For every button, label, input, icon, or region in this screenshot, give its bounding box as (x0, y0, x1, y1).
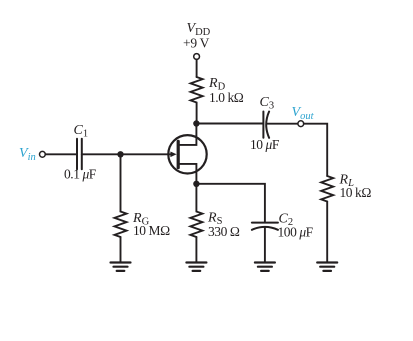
capacitor C3 (263, 112, 269, 138)
wire gate node down to RG (120, 154, 122, 211)
svg-text:C1: C1 (74, 123, 89, 140)
svg-text:Vout: Vout (292, 105, 315, 122)
svg-text:+9 V: +9 V (183, 35, 210, 50)
capacitor C2 (252, 223, 278, 230)
svg-text:Vin: Vin (19, 146, 36, 163)
ground RL (317, 263, 337, 271)
transistor Q1 drain lead (180, 124, 197, 145)
ground C2 (255, 263, 275, 271)
resistor RD (191, 77, 203, 103)
transistor Q1 body (168, 135, 206, 173)
svg-text:0.1 μF: 0.1 μF (64, 167, 97, 182)
svg-text:C3: C3 (260, 95, 275, 112)
svg-text:330 Ω: 330 Ω (208, 224, 240, 239)
wire RL to ground (326, 202, 328, 262)
transistor Q1 gate arrow (170, 152, 176, 158)
wire C3 to Vout terminal (267, 123, 298, 125)
terminal Vout (298, 121, 304, 127)
resistor RG (115, 212, 127, 238)
wire VDD to RD (196, 60, 198, 77)
wire Vin to C1 (45, 153, 76, 155)
node drain junction (193, 120, 199, 126)
wire RS to ground (195, 237, 197, 262)
svg-text:100 μF: 100 μF (278, 225, 314, 240)
wire source node to C2 (196, 184, 265, 222)
node source junction (193, 181, 199, 187)
terminal Vin (40, 151, 46, 157)
wire source node to RS (195, 184, 197, 212)
wire drain node to C3 (196, 123, 263, 125)
wire C2 to ground (264, 228, 266, 262)
svg-text:10 μF: 10 μF (250, 137, 280, 152)
svg-text:1.0 kΩ: 1.0 kΩ (209, 90, 244, 105)
wire C1 to gate node (82, 153, 121, 155)
wire Vout to RL (304, 124, 327, 176)
ground RS (186, 263, 206, 271)
ground RG (111, 263, 131, 271)
wire RD to drain node (196, 103, 198, 124)
node gate junction (117, 151, 123, 157)
terminal VDD (194, 54, 200, 60)
resistor RS (190, 212, 202, 238)
transistor Q1 channel bar (177, 141, 180, 167)
resistor RL (321, 176, 333, 202)
transistor Q1 source lead (180, 164, 197, 184)
svg-text:10 MΩ: 10 MΩ (133, 223, 170, 238)
wire RG to ground (120, 237, 122, 262)
svg-text:10 kΩ: 10 kΩ (340, 185, 372, 200)
wire gate node to transistor (121, 153, 172, 155)
capacitor C1 (77, 139, 82, 170)
